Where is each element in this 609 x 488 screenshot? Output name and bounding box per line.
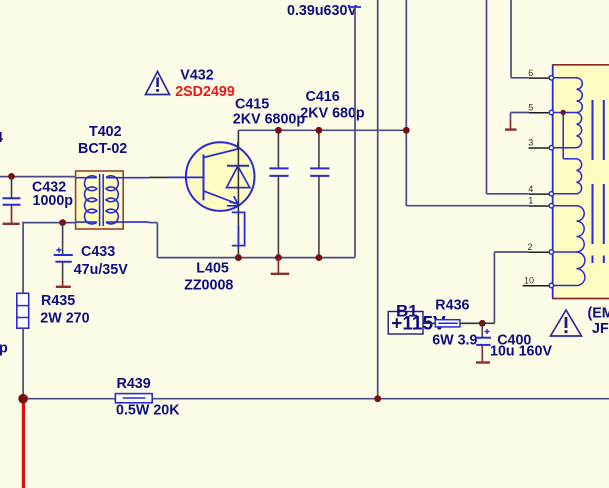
resistor R435 — [17, 293, 90, 328]
capacitor C415 — [233, 97, 306, 258]
svg-text:2W 270: 2W 270 — [40, 311, 89, 327]
capacitor 0.39u630V stub at top — [287, 3, 361, 19]
ground bar under C433 — [56, 286, 71, 288]
ground bar pin 5 — [505, 120, 517, 130]
svg-text:C415: C415 — [235, 97, 269, 113]
wire T402 secondary bottom-left net — [22, 222, 76, 293]
node junction pin5 tap — [561, 110, 566, 115]
wire from 0.39u cap down to bottom bus — [354, 7, 356, 257]
resistor R439 — [115, 376, 180, 419]
wire pin 5 to ground — [511, 113, 530, 121]
svg-text:10u 160V: 10u 160V — [490, 344, 552, 360]
resistor R436 — [423, 298, 482, 349]
svg-text:BCT-02: BCT-02 — [78, 141, 127, 157]
power flag +115V — [388, 302, 446, 335]
node junction C416 bottom — [316, 254, 323, 261]
winding pins 1-2 — [553, 206, 585, 252]
svg-text:6: 6 — [528, 68, 533, 78]
svg-text:4: 4 — [0, 130, 3, 146]
node junction C415 top — [275, 127, 282, 134]
thick red wire down from junction — [22, 400, 25, 488]
note text (EM JF — [588, 305, 609, 337]
svg-text:6W 3.9: 6W 3.9 — [432, 333, 477, 349]
winding pins 5-3 — [553, 113, 582, 148]
svg-text:R439: R439 — [117, 376, 151, 392]
pin 5 — [528, 103, 553, 115]
wire pin 2 to R436 node — [482, 252, 529, 323]
wire R435 bottom to ground bus — [22, 328, 24, 399]
transformer T402 — [76, 124, 149, 229]
svg-text:1000p: 1000p — [33, 193, 74, 209]
partial text "p" at left edge — [0, 341, 8, 357]
svg-text:R435: R435 — [41, 293, 75, 309]
ground bar under C432 — [3, 223, 20, 225]
wire vertical to pin 6 — [511, 0, 529, 78]
pin 1 — [528, 196, 553, 208]
partial text "4" at left edge — [0, 130, 3, 146]
svg-text:0.39u630V: 0.39u630V — [287, 3, 357, 19]
inductor L405 — [184, 212, 245, 293]
pin 10 — [523, 276, 554, 288]
winding pins 6-5 — [553, 78, 583, 113]
ground bar under C400 — [476, 361, 490, 363]
svg-text:ZZ0008: ZZ0008 — [184, 278, 233, 294]
capacitor C433 — [54, 223, 129, 286]
node junction C416 top — [316, 127, 323, 134]
node junction bus/vertical — [374, 395, 381, 402]
wire net top-left to T402 primary top — [0, 176, 76, 178]
transistor V432 designator — [180, 68, 213, 84]
ground bus wire bottom — [23, 398, 609, 400]
transistor V432 — [149, 142, 255, 211]
svg-text:C433: C433 — [81, 244, 115, 260]
svg-text:V432: V432 — [180, 68, 213, 84]
svg-text:0.5W 20K: 0.5W 20K — [116, 403, 180, 419]
svg-text:C416: C416 — [306, 89, 340, 105]
transistor V432 value 2SD2499 — [175, 84, 235, 100]
svg-text:10: 10 — [524, 276, 534, 286]
wire vertical to pin 1 — [406, 0, 529, 206]
flyback transformer block — [552, 65, 609, 299]
node junction R436/C400 — [479, 320, 486, 327]
wire collector top bus — [238, 129, 406, 131]
svg-text:3: 3 — [528, 138, 533, 148]
node junction C432/T402 top — [8, 173, 15, 180]
wire collector-emitter vertical through V432 — [237, 130, 239, 257]
capacitor C400 — [476, 323, 553, 361]
winding pins 2-10 — [553, 252, 585, 286]
warning triangle near transformer — [551, 310, 582, 336]
node big junction bottom-left — [18, 394, 28, 404]
pin 4 — [528, 184, 553, 196]
svg-text:5: 5 — [528, 103, 533, 113]
svg-text:2SD2499: 2SD2499 — [175, 84, 235, 100]
node junction collector bus / pin1 net — [403, 127, 410, 134]
node junction C433 tap — [59, 219, 66, 226]
warning triangle near V432 — [146, 72, 170, 95]
capacitor C432 — [3, 177, 74, 223]
svg-text:p: p — [0, 341, 8, 357]
svg-text:L405: L405 — [196, 261, 229, 277]
node junction C415 bottom — [275, 254, 282, 261]
pin 6 — [528, 68, 553, 80]
svg-text:R436: R436 — [435, 298, 469, 314]
ground bar under C415 — [271, 258, 290, 274]
damper diode inside V432 — [227, 166, 250, 188]
transformer core lines — [593, 100, 604, 263]
svg-text:4: 4 — [528, 184, 533, 194]
svg-text:2KV 6800p: 2KV 6800p — [233, 111, 306, 127]
svg-text:T402: T402 — [89, 124, 122, 140]
svg-text:47u/35V: 47u/35V — [74, 262, 129, 278]
capacitor C416 — [300, 89, 365, 257]
svg-text:JF0: JF0 — [592, 321, 609, 337]
winding tap to pin 3 section — [553, 113, 582, 194]
svg-text:2: 2 — [527, 242, 532, 252]
node junction emitter/bus — [235, 254, 242, 261]
wire long vertical to ground bus — [377, 0, 379, 399]
wire emitter bottom bus — [149, 223, 355, 258]
svg-text:(EMI: (EMI — [588, 305, 609, 321]
pin 3 — [528, 138, 553, 150]
svg-text:1: 1 — [528, 196, 533, 206]
wire vertical to pin 4 — [487, 0, 530, 194]
pin 2 — [527, 242, 553, 254]
